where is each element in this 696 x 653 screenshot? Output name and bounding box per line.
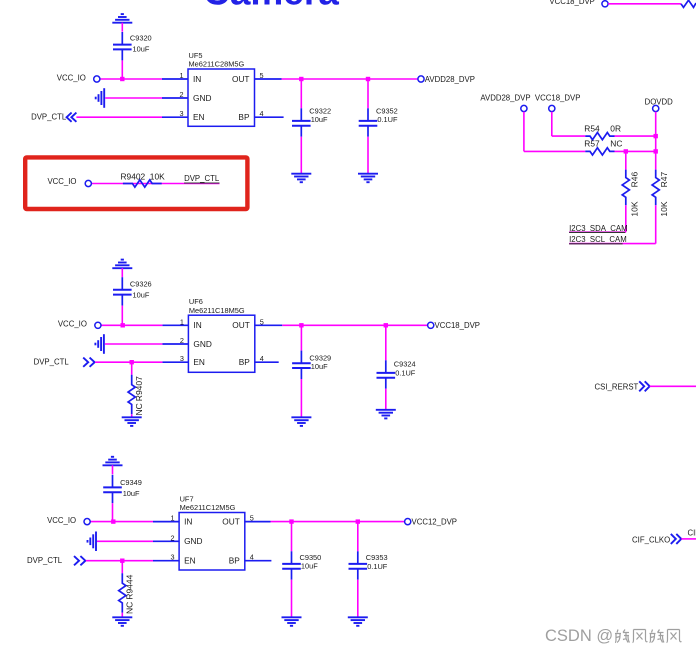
svg-text:C9350: C9350 bbox=[300, 553, 322, 562]
svg-text:10K: 10K bbox=[629, 201, 639, 216]
svg-text:C9322: C9322 bbox=[309, 106, 331, 115]
svg-text:VCC18_DVP: VCC18_DVP bbox=[549, 0, 595, 6]
svg-text:CIF_CLKO: CIF_CLKO bbox=[632, 536, 670, 545]
svg-text:0.1UF: 0.1UF bbox=[377, 115, 398, 124]
svg-text:0.1UF: 0.1UF bbox=[367, 562, 388, 571]
svg-text:R9402: R9402 bbox=[121, 172, 146, 182]
svg-text:DVP_CTL: DVP_CTL bbox=[27, 556, 63, 565]
svg-text:NC: NC bbox=[125, 602, 135, 614]
svg-text:Camera: Camera bbox=[203, 0, 339, 13]
svg-text:IN: IN bbox=[184, 517, 192, 527]
svg-text:Me6211C18M5G: Me6211C18M5G bbox=[189, 306, 245, 315]
svg-text:EN: EN bbox=[193, 112, 205, 122]
svg-text:AVDD28_DVP: AVDD28_DVP bbox=[425, 75, 475, 84]
svg-text:CIF: CIF bbox=[688, 529, 696, 538]
svg-text:10uF: 10uF bbox=[301, 562, 318, 571]
svg-text:DVP_CTL: DVP_CTL bbox=[31, 113, 67, 122]
svg-text:R47: R47 bbox=[659, 172, 669, 188]
svg-text:GND: GND bbox=[193, 339, 211, 349]
svg-text:R46: R46 bbox=[629, 172, 639, 188]
svg-text:DVP_CTL: DVP_CTL bbox=[184, 174, 220, 183]
svg-text:VCC18_DVP: VCC18_DVP bbox=[435, 321, 481, 330]
svg-text:10uF: 10uF bbox=[133, 44, 150, 53]
svg-text:10K: 10K bbox=[150, 172, 165, 182]
svg-text:DOVDD: DOVDD bbox=[645, 98, 674, 107]
svg-text:VCC_IO: VCC_IO bbox=[57, 73, 86, 82]
svg-text:IN: IN bbox=[193, 320, 201, 330]
svg-text:NC: NC bbox=[610, 138, 622, 148]
svg-text:0.1UF: 0.1UF bbox=[395, 369, 416, 378]
svg-text:VCC18_DVP: VCC18_DVP bbox=[535, 93, 581, 102]
svg-text:10K: 10K bbox=[659, 201, 669, 216]
svg-text:BP: BP bbox=[239, 357, 251, 367]
svg-text:C9320: C9320 bbox=[130, 33, 152, 42]
svg-text:10uF: 10uF bbox=[123, 489, 140, 498]
svg-text:10uF: 10uF bbox=[133, 291, 150, 300]
svg-text:VCC12_DVP: VCC12_DVP bbox=[412, 517, 458, 526]
svg-text:VCC_IO: VCC_IO bbox=[47, 177, 76, 186]
svg-text:UF6: UF6 bbox=[189, 297, 203, 306]
svg-text:BP: BP bbox=[238, 112, 250, 122]
svg-text:0R: 0R bbox=[610, 123, 621, 133]
svg-text:C9353: C9353 bbox=[366, 553, 388, 562]
svg-text:C9352: C9352 bbox=[376, 106, 398, 115]
svg-text:R9444: R9444 bbox=[125, 574, 135, 599]
svg-text:OUT: OUT bbox=[222, 517, 240, 527]
svg-text:C9349: C9349 bbox=[120, 478, 142, 487]
svg-text:R54: R54 bbox=[584, 123, 600, 133]
svg-text:Me6211C12M5G: Me6211C12M5G bbox=[180, 503, 236, 512]
svg-text:R57: R57 bbox=[584, 138, 600, 148]
svg-text:OUT: OUT bbox=[232, 320, 250, 330]
svg-text:IN: IN bbox=[193, 74, 201, 84]
svg-text:C9326: C9326 bbox=[130, 280, 152, 289]
svg-text:BP: BP bbox=[229, 556, 241, 566]
svg-text:EN: EN bbox=[193, 357, 205, 367]
svg-text:C9329: C9329 bbox=[309, 353, 331, 362]
svg-text:EN: EN bbox=[184, 556, 196, 566]
svg-text:GND: GND bbox=[184, 536, 202, 546]
svg-text:DVP_CTL: DVP_CTL bbox=[34, 358, 70, 367]
svg-text:CSI_RERST: CSI_RERST bbox=[595, 383, 639, 392]
svg-text:GND: GND bbox=[193, 93, 211, 103]
svg-text:C9324: C9324 bbox=[394, 360, 416, 369]
svg-text:NC: NC bbox=[134, 403, 144, 415]
svg-text:AVDD28_DVP: AVDD28_DVP bbox=[480, 93, 530, 102]
svg-text:CSDN @: CSDN @ bbox=[545, 627, 613, 645]
svg-text:UF7: UF7 bbox=[180, 495, 194, 504]
svg-text:OUT: OUT bbox=[232, 74, 250, 84]
svg-text:Me6211C28M5G: Me6211C28M5G bbox=[189, 60, 245, 69]
svg-text:10uF: 10uF bbox=[311, 115, 328, 124]
svg-text:R9407: R9407 bbox=[134, 376, 144, 401]
svg-text:10uF: 10uF bbox=[311, 362, 328, 371]
svg-text:VCC_IO: VCC_IO bbox=[47, 516, 76, 525]
svg-text:UF5: UF5 bbox=[189, 51, 203, 60]
svg-text:VCC_IO: VCC_IO bbox=[58, 320, 87, 329]
